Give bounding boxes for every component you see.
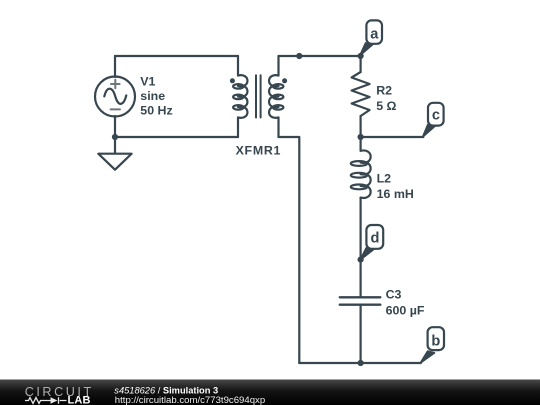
svg-text:http://circuitlab.com/c773t9c6: http://circuitlab.com/c773t9c694qxp <box>115 395 265 405</box>
capacitor C3 <box>340 260 381 363</box>
svg-text:50 Hz: 50 Hz <box>140 104 172 118</box>
ground <box>98 154 131 170</box>
node b flag <box>420 327 444 363</box>
junction dot node a <box>358 53 364 59</box>
resistor R2 <box>352 56 370 137</box>
node d flag <box>360 225 383 260</box>
svg-text:R2: R2 <box>376 84 392 98</box>
svg-text:V1: V1 <box>140 74 155 88</box>
junction dot at V1 bottom <box>112 134 118 140</box>
junction dot node d <box>358 257 364 263</box>
wire secondary top horizontal <box>279 55 361 57</box>
voltage source V1 <box>95 77 135 117</box>
node c flag <box>422 103 443 138</box>
inductor L2 <box>351 137 371 260</box>
wire V1 top vertical <box>114 56 116 77</box>
CircuitLab logo waveform <box>25 397 67 403</box>
junction dot R2 bottom <box>358 134 364 140</box>
svg-text:a: a <box>370 27 379 43</box>
junction dot C3 bottom <box>358 360 364 366</box>
wire primary bottom horizontal <box>115 136 238 138</box>
svg-text:5 Ω: 5 Ω <box>376 99 396 113</box>
wire bottom rail <box>299 362 421 364</box>
svg-text:XFMR1: XFMR1 <box>236 144 282 158</box>
svg-text:c: c <box>432 107 440 123</box>
footer bar <box>0 380 540 405</box>
svg-text:sine: sine <box>140 89 165 103</box>
svg-text:b: b <box>431 333 440 349</box>
svg-text:s4518626 / Simulation 3: s4518626 / Simulation 3 <box>114 385 218 395</box>
svg-text:LAB: LAB <box>68 395 91 405</box>
label R2 value <box>376 84 396 114</box>
transformer XFMR1 phase dot primary <box>230 78 235 83</box>
junction dot mid top wire <box>296 53 302 59</box>
svg-text:C3: C3 <box>386 288 402 302</box>
node a flag <box>360 20 382 56</box>
svg-text:L2: L2 <box>377 171 392 185</box>
svg-text:600 µF: 600 µF <box>386 304 425 318</box>
transformer XFMR1 secondary winding <box>269 56 283 137</box>
wire node c horizontal <box>361 136 424 138</box>
label L2 value <box>377 171 414 201</box>
svg-text:16 mH: 16 mH <box>377 187 414 201</box>
wire primary top horizontal <box>115 55 238 57</box>
svg-text:d: d <box>370 230 379 246</box>
transformer XFMR1 phase dot secondary <box>282 78 287 83</box>
label V1 value <box>140 74 172 117</box>
wire secondary bottom to long vertical <box>279 137 300 363</box>
label C3 value <box>386 288 425 318</box>
label XFMR1 <box>236 144 282 158</box>
transformer XFMR1 core <box>256 75 261 117</box>
transformer U1 XFMR1 primary winding <box>233 56 247 137</box>
wire V1 bottom to ground <box>114 116 116 153</box>
